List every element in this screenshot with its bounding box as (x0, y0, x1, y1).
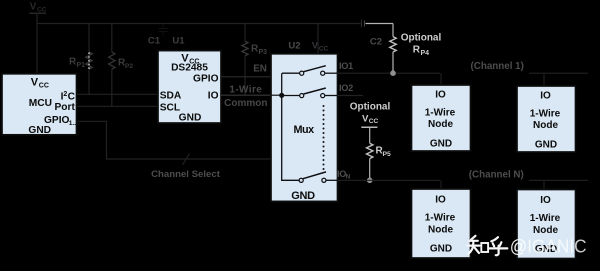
svg-text:Node: Node (428, 224, 453, 235)
svg-text:GND: GND (430, 138, 452, 149)
bus slash mark (183, 154, 190, 166)
junction dot on bus (279, 93, 284, 98)
svg-text:CC: CC (39, 83, 49, 90)
svg-text:GND: GND (291, 190, 315, 202)
junction dot channelN/RP5 (367, 178, 373, 184)
svg-text:Optional: Optional (401, 33, 442, 44)
svg-text:Common: Common (224, 98, 267, 109)
wire SCL MCU to DS2485 (77, 105, 159, 107)
svg-text:Node: Node (428, 119, 453, 130)
svg-text:@IGANIC: @IGANIC (510, 236, 587, 257)
svg-text:Channel Select: Channel Select (151, 169, 221, 180)
resistor RP1 (88, 24, 90, 53)
watermark @IGANIC (510, 236, 587, 257)
resistor RP3 (244, 24, 246, 42)
wire mux VCC stub (317, 24, 319, 54)
svg-text:Optional: Optional (350, 102, 391, 113)
power symbol VCC (top-left) (30, 2, 47, 14)
VCC bar (29, 12, 46, 14)
svg-text:1-Wire: 1-Wire (530, 213, 561, 224)
svg-text:Mux: Mux (294, 124, 315, 136)
mux box U2 (271, 54, 338, 202)
wire channel N right segment (529, 179, 588, 181)
svg-text:IO2: IO2 (339, 83, 353, 93)
svg-text:IO: IO (540, 91, 551, 102)
svg-text:GND: GND (430, 243, 452, 254)
svg-text:1-Wire: 1-Wire (425, 107, 456, 118)
wire IO1 / channel 1 line (338, 72, 441, 74)
wire VCC stem down to MCU (36, 14, 38, 74)
svg-text:P4: P4 (421, 50, 430, 57)
wire stub box1 (440, 73, 442, 85)
svg-text:Node: Node (533, 225, 558, 236)
svg-text:1-Wire: 1-Wire (530, 108, 561, 119)
svg-text:(Channel 1): (Channel 1) (471, 61, 524, 72)
svg-text:P1: P1 (77, 62, 86, 69)
wire common entry inside mux (271, 94, 282, 96)
svg-text:SCL: SCL (160, 103, 180, 114)
svg-text:GND: GND (179, 112, 202, 123)
wire stub box2 (543, 73, 545, 86)
svg-text:MCU: MCU (29, 98, 52, 109)
svg-text:N: N (346, 174, 351, 181)
svg-text:1-Wire: 1-Wire (425, 213, 456, 224)
mux internal common bus (282, 73, 300, 180)
svg-text:SDA: SDA (160, 91, 182, 102)
svg-text:V: V (30, 2, 37, 13)
MCU box (2, 74, 77, 135)
svg-text:V: V (31, 76, 39, 88)
svg-text:IO: IO (435, 90, 446, 101)
wire rail white segment to RP4 (366, 23, 394, 25)
1-wire node box 2 (517, 86, 576, 152)
svg-text:GND: GND (535, 139, 557, 150)
svg-text:GPIO: GPIO (193, 74, 219, 85)
watermark zhihu logo 乎 (489, 237, 507, 255)
svg-text:1-Wire: 1-Wire (229, 84, 262, 95)
wire 1-wire common (DS2485 IO to mux bus) (221, 94, 282, 96)
wire stub box3 (440, 180, 442, 189)
svg-text:C1: C1 (148, 36, 161, 47)
svg-text:DS2485: DS2485 (171, 63, 208, 74)
resistor RP5 (white) (369, 127, 371, 143)
svg-text:P2: P2 (125, 63, 133, 70)
DS2485 box U1 (158, 51, 221, 123)
wire SDA MCU to DS2485 (77, 93, 159, 95)
1-wire node box 4 (517, 190, 576, 259)
svg-text:CC: CC (369, 118, 379, 125)
svg-text:IO1: IO1 (339, 61, 353, 71)
wire channel 1 right segment (529, 72, 588, 74)
VCC bar (white) (361, 126, 377, 128)
svg-text:P3: P3 (259, 49, 268, 56)
svg-text:U2: U2 (288, 40, 300, 51)
svg-text:Port: Port (55, 102, 76, 113)
svg-text:P5: P5 (383, 151, 392, 158)
switch 1 (IO1) (282, 72, 299, 74)
svg-text:IO: IO (208, 91, 219, 102)
wire MCU GPIO / channel select (77, 121, 272, 159)
1-wire node box 3 (412, 189, 471, 258)
resistor RP2 (111, 24, 113, 53)
svg-text:CC: CC (37, 6, 47, 13)
svg-text:1..3: 1..3 (69, 120, 80, 127)
switch 2 (IO2) (282, 95, 299, 97)
svg-text:CC: CC (319, 45, 329, 52)
svg-text:IO: IO (540, 195, 551, 206)
1-wire node box 1 (412, 85, 471, 151)
svg-text:(Channel N): (Channel N) (469, 169, 524, 180)
capacitor C1 (faint) (159, 24, 168, 37)
svg-text:Node: Node (533, 120, 558, 131)
svg-text:GND: GND (28, 125, 51, 136)
wire stub box4 (543, 180, 545, 189)
svg-text:IO: IO (435, 195, 446, 206)
wire top VCC rail (37, 23, 361, 25)
svg-text:EN: EN (253, 64, 267, 75)
resistor RP4 (white) (392, 24, 394, 37)
junction dot channel1/RP4 (390, 70, 396, 76)
svg-text:C2: C2 (370, 37, 382, 48)
switch N (ION) (299, 178, 303, 182)
wire IO2 stub (338, 95, 364, 97)
svg-text:U1: U1 (172, 36, 185, 47)
wire EN (DS2485 GPIO to mux) (221, 76, 271, 78)
wire ION / channel N line (338, 179, 441, 181)
watermark zhihu logo 知 (468, 236, 489, 254)
capacitor C2 plates (361, 20, 363, 27)
dotted line (more channels) (323, 105, 325, 170)
